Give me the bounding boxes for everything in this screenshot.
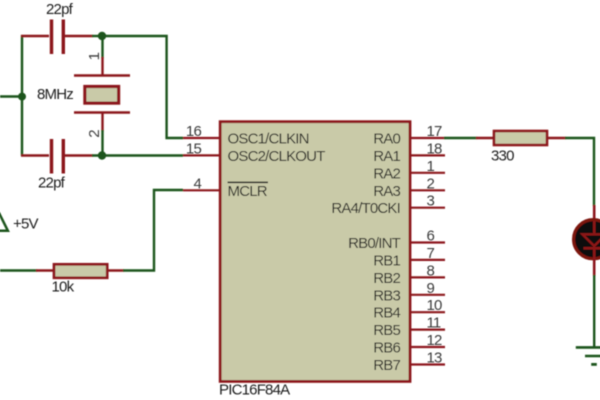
pin 18 stub bbox=[410, 154, 445, 156]
pin 2 stub bbox=[410, 189, 445, 191]
pin 13 stub bbox=[410, 363, 445, 365]
svg-text:7: 7 bbox=[427, 245, 435, 262]
svg-text:12: 12 bbox=[427, 332, 443, 349]
node junction left bbox=[18, 93, 26, 101]
svg-text:22pf: 22pf bbox=[38, 175, 66, 192]
svg-text:RA4/T0CKI: RA4/T0CKI bbox=[331, 200, 400, 217]
svg-text:10k: 10k bbox=[52, 278, 75, 295]
pin 8 stub bbox=[410, 276, 445, 278]
node A top bbox=[98, 32, 106, 40]
pin 4 stub bbox=[183, 189, 219, 191]
svg-text:+5V: +5V bbox=[13, 216, 39, 233]
pin 10 stub bbox=[410, 311, 445, 313]
pin 1 stub bbox=[410, 172, 445, 174]
svg-text:RB6: RB6 bbox=[373, 340, 400, 357]
svg-text:22pf: 22pf bbox=[46, 1, 74, 18]
svg-text:RB5: RB5 bbox=[373, 322, 400, 339]
svg-text:8: 8 bbox=[427, 262, 435, 279]
svg-text:RA3: RA3 bbox=[373, 183, 400, 200]
pin 15 stub bbox=[183, 154, 219, 156]
svg-text:11: 11 bbox=[427, 315, 441, 332]
wire LED to ground bbox=[593, 275, 595, 347]
svg-text:10: 10 bbox=[427, 297, 443, 314]
wire pin17 to R1 bbox=[444, 137, 477, 139]
svg-text:2: 2 bbox=[427, 175, 435, 192]
svg-text:18: 18 bbox=[427, 140, 443, 157]
wire node to pin16 bbox=[102, 36, 183, 138]
LED D1 bbox=[574, 205, 600, 276]
svg-text:8MHz: 8MHz bbox=[37, 86, 73, 103]
pin 16 stub bbox=[183, 137, 219, 139]
svg-text:9: 9 bbox=[427, 280, 435, 297]
pin 6 stub bbox=[410, 241, 445, 243]
resistor R2 10k bbox=[36, 264, 124, 278]
svg-text:2: 2 bbox=[86, 130, 103, 138]
node B bottom bbox=[98, 151, 106, 159]
svg-text:OSC1/CLKIN: OSC1/CLKIN bbox=[228, 131, 309, 148]
svg-text:PIC16F84A: PIC16F84A bbox=[219, 382, 290, 399]
svg-text:RB7: RB7 bbox=[373, 357, 400, 374]
svg-text:16: 16 bbox=[186, 123, 202, 140]
power +5V symbol bbox=[0, 213, 8, 231]
svg-text:OSC2/CLKOUT: OSC2/CLKOUT bbox=[228, 148, 326, 165]
svg-text:RA1: RA1 bbox=[373, 148, 400, 165]
wire stub to left edge bbox=[0, 95, 22, 97]
svg-text:MCLR: MCLR bbox=[228, 183, 268, 200]
IC U1 PIC16F84A body bbox=[220, 122, 410, 382]
svg-text:6: 6 bbox=[427, 228, 435, 245]
svg-text:RA0: RA0 bbox=[373, 131, 400, 148]
svg-text:RB3: RB3 bbox=[373, 287, 400, 304]
pin 17 stub bbox=[410, 137, 445, 139]
crystal X1 8MHz bbox=[74, 36, 130, 156]
pin 11 stub bbox=[410, 329, 445, 331]
svg-text:17: 17 bbox=[427, 123, 443, 140]
svg-text:330: 330 bbox=[491, 148, 514, 165]
pin 7 stub bbox=[410, 259, 445, 261]
svg-text:RA2: RA2 bbox=[373, 165, 400, 182]
capacitor C1 22pf top : leads bbox=[21, 20, 93, 55]
wire node B to pin15 bbox=[92, 154, 183, 156]
svg-text:RB4: RB4 bbox=[373, 305, 400, 322]
svg-text:13: 13 bbox=[427, 350, 443, 367]
wire 10k to MCLR bbox=[123, 190, 183, 271]
pin 3 stub bbox=[410, 207, 445, 209]
capacitor C2 22pf bottom : leads bbox=[21, 139, 93, 174]
wire cap1 to node bbox=[92, 35, 103, 37]
svg-text:15: 15 bbox=[186, 140, 202, 157]
svg-text:3: 3 bbox=[427, 193, 435, 210]
svg-text:1: 1 bbox=[86, 52, 103, 60]
pin 12 stub bbox=[410, 346, 445, 348]
wire R1 to LED bbox=[565, 138, 594, 206]
wire 10k row left bbox=[0, 269, 37, 271]
svg-text:1: 1 bbox=[427, 158, 435, 175]
svg-text:RB0/INT: RB0/INT bbox=[348, 235, 401, 252]
wire left vertical bbox=[21, 35, 23, 156]
pin 9 stub bbox=[410, 294, 445, 296]
resistor R1 330 bbox=[476, 131, 566, 145]
svg-text:4: 4 bbox=[193, 175, 201, 192]
svg-text:RB1: RB1 bbox=[373, 253, 400, 270]
svg-text:RB2: RB2 bbox=[373, 270, 400, 287]
ground symbol bbox=[576, 347, 600, 364]
